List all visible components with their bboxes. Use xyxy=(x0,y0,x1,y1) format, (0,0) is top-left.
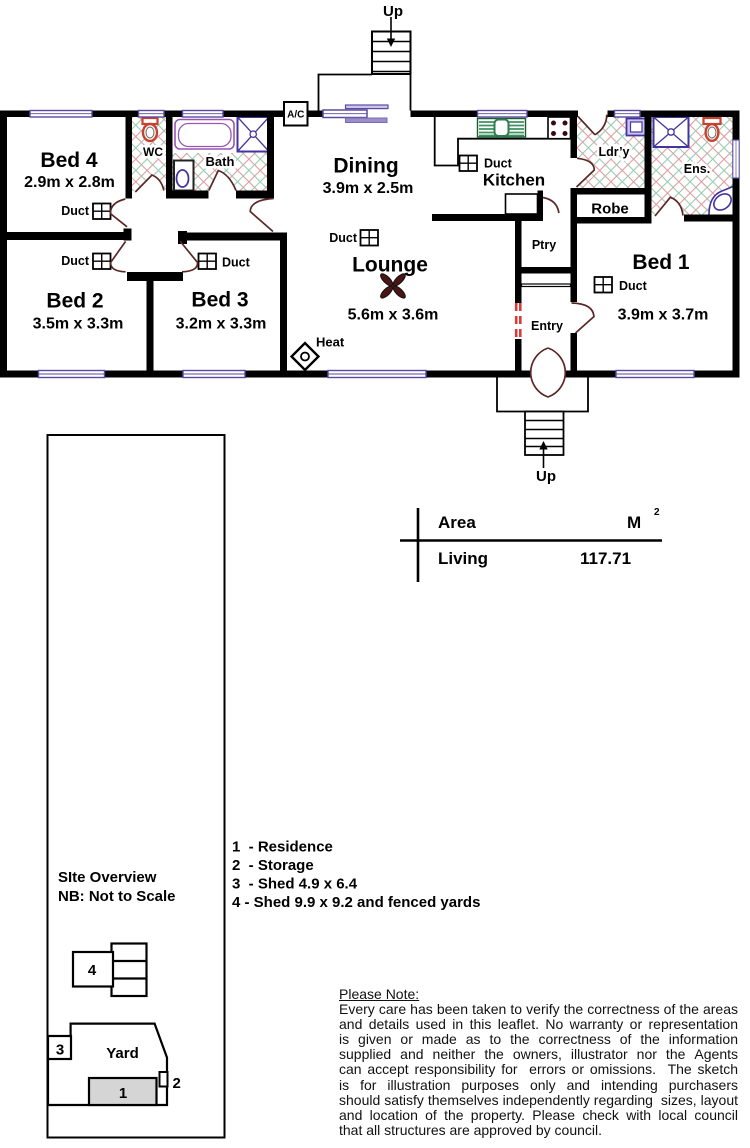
bath tub backdrop xyxy=(173,117,238,153)
svg-text:NB: Not to Scale: NB: Not to Scale xyxy=(58,888,176,905)
wall bed2-bed3 divider xyxy=(147,277,154,371)
wall wc right xyxy=(166,117,173,199)
duct icon bed1 xyxy=(595,277,613,293)
svg-text:2: 2 xyxy=(173,1075,181,1092)
window bath top xyxy=(183,111,224,118)
wall bottom xyxy=(0,371,740,378)
wall ensuite bottom xyxy=(684,215,740,222)
svg-text:Bed 1: Bed 1 xyxy=(632,251,690,274)
shed4 square xyxy=(73,952,113,987)
svg-text:1: 1 xyxy=(119,1085,127,1102)
stairs bottom box xyxy=(525,412,564,456)
svg-text:3 - Shed 4.9 x 6.4: 3 - Shed 4.9 x 6.4 xyxy=(232,876,358,893)
residence rect xyxy=(89,1078,157,1105)
ensuite toilet xyxy=(704,118,721,124)
svg-text:WC: WC xyxy=(143,145,163,159)
door hall-lounge xyxy=(250,199,273,232)
wall left xyxy=(0,111,7,378)
wall top-left xyxy=(0,111,323,118)
svg-text:Kitchen: Kitchen xyxy=(483,171,545,190)
ensuite shower xyxy=(654,117,689,147)
hatch floor Ensuite xyxy=(652,117,733,215)
hatch floor Bath xyxy=(173,117,268,191)
svg-text:4: 4 xyxy=(88,962,97,979)
door wc xyxy=(135,175,164,192)
door laundry external xyxy=(578,115,607,135)
heat unit xyxy=(292,343,319,370)
door bed4 xyxy=(110,199,127,227)
duct icon bed4 xyxy=(93,204,111,220)
svg-text:5.6m x 3.6m: 5.6m x 3.6m xyxy=(348,307,439,324)
wall bath bottom right xyxy=(236,191,274,199)
entry shelf line xyxy=(522,284,571,287)
door laundry hall xyxy=(577,158,595,187)
ceiling fan lounge xyxy=(379,272,407,300)
svg-text:Lounge: Lounge xyxy=(352,254,428,277)
sliding door lower bar xyxy=(346,118,388,123)
kitchen cooktop xyxy=(548,117,571,139)
svg-text:Bed 2: Bed 2 xyxy=(46,290,103,313)
svg-text:Yard: Yard xyxy=(106,1045,139,1062)
svg-text:Duct: Duct xyxy=(619,279,648,293)
svg-text:Duct: Duct xyxy=(61,204,90,218)
hatch floor WC xyxy=(132,117,166,191)
duct icon bed3 xyxy=(199,254,217,270)
entry dashed wall xyxy=(515,303,518,339)
area table vertical line xyxy=(417,508,420,582)
window bed3 bottom xyxy=(183,371,245,378)
wall top-right b xyxy=(608,111,740,118)
door pantry xyxy=(543,198,559,214)
svg-text:Ldr’y: Ldr’y xyxy=(598,145,629,159)
landing top outline xyxy=(319,75,411,111)
wall robe bottom xyxy=(571,217,652,224)
bath shower xyxy=(238,117,270,152)
window ensuite right xyxy=(733,140,739,178)
window kitchen top xyxy=(478,111,528,118)
wall kitchen bottom xyxy=(432,214,543,221)
door bath xyxy=(209,171,236,191)
svg-text:A/C: A/C xyxy=(287,110,304,121)
window bed4 top xyxy=(30,111,92,118)
wall kitchen right xyxy=(571,117,578,158)
window lounge bottom xyxy=(328,371,426,378)
wall bed3 right xyxy=(280,233,287,371)
svg-text:SIte Overview: SIte Overview xyxy=(58,869,157,886)
kitchen bench xyxy=(435,117,571,166)
window wc top xyxy=(139,111,165,118)
svg-text:Dining: Dining xyxy=(333,155,398,178)
svg-text:Up: Up xyxy=(383,3,403,20)
wall bath right xyxy=(267,117,274,199)
WC toilet xyxy=(143,118,158,124)
svg-text:Duct: Duct xyxy=(222,256,251,270)
wall bed1 left upper xyxy=(571,188,578,302)
sliding door dining panel xyxy=(323,110,367,118)
wall bed1 left lower xyxy=(571,333,578,371)
site boundary xyxy=(48,435,225,1138)
wall bath bottom left xyxy=(166,191,209,199)
kitchen sink xyxy=(478,119,526,138)
duct icon lounge xyxy=(361,230,379,246)
shed3 square xyxy=(48,1036,71,1059)
svg-text:3.9m x 2.5m: 3.9m x 2.5m xyxy=(323,180,414,197)
stairs top arrow xyxy=(387,17,395,47)
stairs bottom arrow xyxy=(539,441,547,468)
duct icon bed2 xyxy=(93,254,111,270)
bath vanity xyxy=(174,161,194,191)
svg-text:Bed 4: Bed 4 xyxy=(40,149,98,172)
wall pantry bottom xyxy=(515,267,577,274)
door bed2 xyxy=(111,241,126,271)
svg-text:Bed 3: Bed 3 xyxy=(191,289,248,312)
svg-text:3.2m x 3.3m: 3.2m x 3.3m xyxy=(176,316,267,333)
door bed1 xyxy=(572,303,595,333)
svg-text:3: 3 xyxy=(56,1042,64,1059)
svg-text:Entry: Entry xyxy=(531,319,563,333)
svg-text:2 - Storage: 2 - Storage xyxy=(232,857,314,874)
area table horizontal line xyxy=(400,539,662,542)
wall bed4 right xyxy=(126,117,133,199)
svg-text:Living: Living xyxy=(438,549,488,568)
wall hall stub xyxy=(127,272,183,281)
svg-text:117.71: 117.71 xyxy=(580,549,631,568)
svg-text:Bath: Bath xyxy=(206,154,235,169)
wall laundry-ens divider xyxy=(645,111,652,223)
wall right xyxy=(733,111,740,378)
svg-text:3.5m x 3.3m: 3.5m x 3.3m xyxy=(33,316,124,333)
stairs top box xyxy=(372,32,411,75)
yard polygon xyxy=(48,1024,167,1105)
wall pantry left xyxy=(515,214,522,303)
pantry cupboard xyxy=(506,194,538,214)
wall robe top xyxy=(571,188,652,195)
door ensuite xyxy=(655,197,683,216)
door bed3 xyxy=(180,241,197,271)
shed4 rows xyxy=(112,944,147,997)
svg-text:Ptry: Ptry xyxy=(532,238,556,252)
duct icon kitchen xyxy=(460,156,478,172)
svg-text:Duct: Duct xyxy=(484,157,513,171)
wall bed4-bed2 divider xyxy=(0,232,127,240)
door entry double xyxy=(531,348,566,397)
wall pantry top stub xyxy=(538,191,544,215)
storage rect xyxy=(160,1072,168,1087)
svg-text:2: 2 xyxy=(654,507,660,518)
wall entry left lower xyxy=(515,339,522,371)
hatch floor Laundry xyxy=(577,117,645,188)
svg-text:Ens.: Ens. xyxy=(684,162,710,176)
svg-text:2.9m x 2.8m: 2.9m x 2.8m xyxy=(24,174,115,191)
ac unit xyxy=(284,102,308,126)
svg-text:Duct: Duct xyxy=(329,231,358,245)
window laundry top xyxy=(615,111,641,118)
bath tub xyxy=(175,120,234,150)
laundry washing machine xyxy=(627,119,647,136)
wall bed4-bed2 divider cap xyxy=(124,229,132,241)
window bed2 bottom xyxy=(39,371,105,378)
wall bed3 top xyxy=(178,233,287,241)
svg-text:4 - Shed 9.9 x 9.2 and fenced: 4 - Shed 9.9 x 9.2 and fenced yards xyxy=(232,894,480,911)
wall top-right a xyxy=(411,111,579,118)
sliding door upper bar xyxy=(346,105,389,109)
svg-text:Robe: Robe xyxy=(591,201,629,218)
ensuite basin corner xyxy=(709,187,733,215)
svg-text:Area: Area xyxy=(438,513,476,532)
svg-text:3.9m x 3.7m: 3.9m x 3.7m xyxy=(618,307,709,324)
svg-text:Heat: Heat xyxy=(316,335,345,350)
svg-text:M: M xyxy=(627,513,641,532)
svg-text:1 - Residence: 1 - Residence xyxy=(232,839,333,856)
wall bed3 top cap xyxy=(178,231,187,244)
window bed1 bottom xyxy=(616,371,694,378)
porch bottom outline xyxy=(497,378,588,412)
svg-text:Up: Up xyxy=(536,468,556,485)
svg-text:Duct: Duct xyxy=(61,254,90,268)
